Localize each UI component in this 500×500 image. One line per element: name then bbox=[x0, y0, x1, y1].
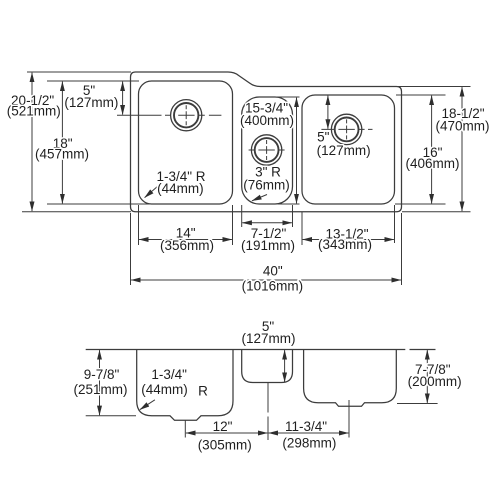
svg-text:(1016mm): (1016mm) bbox=[242, 278, 304, 293]
dim 14: left extension line bbox=[138, 205, 140, 245]
middle bowl drain outer circle bbox=[251, 135, 281, 165]
dim 13-1/2: left extension line bbox=[301, 212, 303, 245]
left bowl (top view) bbox=[139, 81, 233, 204]
middle drain crosshair bbox=[249, 140, 285, 160]
svg-text:(343mm): (343mm) bbox=[318, 237, 372, 252]
svg-text:12": 12" bbox=[213, 419, 233, 434]
sink rim outline (top view) bbox=[131, 72, 402, 212]
dim 20-1/2: vertical dimension line bbox=[31, 73, 33, 212]
svg-text:(44mm): (44mm) bbox=[141, 382, 188, 397]
dim 13-1/2: horizontal dimension line bbox=[303, 239, 394, 241]
svg-text:(127mm): (127mm) bbox=[64, 95, 118, 110]
leader arrow for 1-3/4 R (section corner radius) bbox=[140, 400, 155, 410]
right drain crosshair bbox=[321, 119, 372, 139]
svg-text:(356mm): (356mm) bbox=[160, 238, 214, 253]
dim 5 middle depth: double arrow bbox=[284, 350, 286, 382]
dim 7-7/8: vertical dimension line bbox=[426, 350, 428, 403]
left drain crosshair bbox=[117, 105, 221, 125]
dim 12: horizontal dimension line bbox=[186, 432, 268, 434]
svg-text:R: R bbox=[198, 384, 208, 399]
dim 11-3/4: horizontal dimension line bbox=[269, 432, 349, 434]
dim 18-1/2: vertical dimension line bbox=[461, 87, 463, 211]
svg-text:(521mm): (521mm) bbox=[7, 104, 61, 119]
svg-text:(127mm): (127mm) bbox=[241, 331, 295, 346]
dim 5 left bowl: vertical dimension line bbox=[122, 82, 124, 115]
svg-text:(251mm): (251mm) bbox=[73, 382, 127, 397]
dim 18-1/2: bottom extension line bbox=[402, 211, 471, 213]
dim 15-3/4: bottom extension tick bbox=[278, 203, 300, 205]
svg-text:(406mm): (406mm) bbox=[405, 156, 459, 171]
middle bowl section profile bbox=[242, 350, 293, 383]
dim 16: bottom extension line bbox=[395, 203, 446, 205]
dim 40: left extension line bbox=[130, 213, 132, 285]
dim 5 right bowl: vertical dimension line bbox=[327, 96, 329, 129]
left drain centerline bbox=[184, 420, 186, 438]
dim 7-1/2: left extension line bbox=[241, 205, 243, 227]
dim 9-7/8: bottom extension line bbox=[86, 415, 136, 417]
right bowl section profile bbox=[304, 350, 397, 407]
right bowl (top view) bbox=[302, 95, 395, 204]
svg-text:(470mm): (470mm) bbox=[435, 118, 489, 133]
svg-text:(127mm): (127mm) bbox=[317, 143, 371, 158]
left bowl drain inner circle bbox=[174, 103, 198, 127]
middle bowl drain inner circle bbox=[255, 138, 279, 162]
left bowl section profile bbox=[137, 350, 233, 421]
svg-text:(44mm): (44mm) bbox=[157, 181, 204, 196]
svg-text:(76mm): (76mm) bbox=[243, 178, 290, 193]
svg-text:9-7/8": 9-7/8" bbox=[84, 367, 120, 382]
middle bowl (top view) bbox=[242, 97, 293, 204]
svg-text:40": 40" bbox=[263, 263, 283, 278]
right bowl drain outer circle bbox=[331, 114, 361, 144]
dim 7-1/2: right extension line bbox=[292, 205, 294, 227]
dim 40: right extension line bbox=[401, 213, 403, 285]
dim 16: vertical dimension line bbox=[431, 96, 433, 204]
middle bowl centerline bbox=[267, 383, 269, 441]
dim 7-7/8: bottom extension line bbox=[397, 403, 438, 405]
right drain centerline bbox=[348, 400, 350, 438]
dim 16: top extension line bbox=[396, 94, 446, 96]
dim 40: horizontal dimension line bbox=[131, 279, 401, 281]
leader arrow for 1-3/4 R (top view corner radius) bbox=[145, 186, 158, 198]
dim 13-1/2: right extension line bbox=[394, 205, 396, 243]
dim 15-3/4: vertical dimension line bbox=[296, 98, 298, 204]
svg-text:(457mm): (457mm) bbox=[35, 147, 89, 162]
svg-text:(305mm): (305mm) bbox=[198, 437, 252, 452]
dim 20-1/2: bottom extension line bbox=[22, 211, 131, 213]
leader arrow for 3 R (middle bowl corner radius) bbox=[252, 195, 267, 201]
dim 14: horizontal dimension line bbox=[139, 239, 232, 241]
svg-text:(191mm): (191mm) bbox=[241, 238, 295, 253]
svg-text:(200mm): (200mm) bbox=[408, 374, 462, 389]
dim 9-7/8: vertical dimension line bbox=[99, 350, 101, 415]
dim 20-1/2: top extension line bbox=[27, 71, 131, 73]
dim 14: right extension line bbox=[232, 205, 234, 245]
dim 18: top extension line bbox=[47, 80, 139, 82]
dim 18: bottom extension line bbox=[47, 203, 152, 205]
svg-text:11-3/4": 11-3/4" bbox=[285, 419, 327, 434]
svg-text:(400mm): (400mm) bbox=[240, 113, 294, 128]
deck / rim line bbox=[86, 349, 436, 351]
left bowl drain outer circle bbox=[171, 100, 202, 131]
dim 18-1/2: top extension line bbox=[398, 86, 471, 88]
svg-text:(298mm): (298mm) bbox=[282, 436, 336, 451]
dim 18: vertical dimension line bbox=[61, 82, 63, 204]
right bowl drain inner circle bbox=[335, 117, 359, 141]
svg-text:1-3/4": 1-3/4" bbox=[151, 367, 187, 382]
dim 15-3/4: top extension tick bbox=[270, 96, 300, 98]
dim 7-1/2: horizontal dimension line bbox=[242, 222, 292, 224]
